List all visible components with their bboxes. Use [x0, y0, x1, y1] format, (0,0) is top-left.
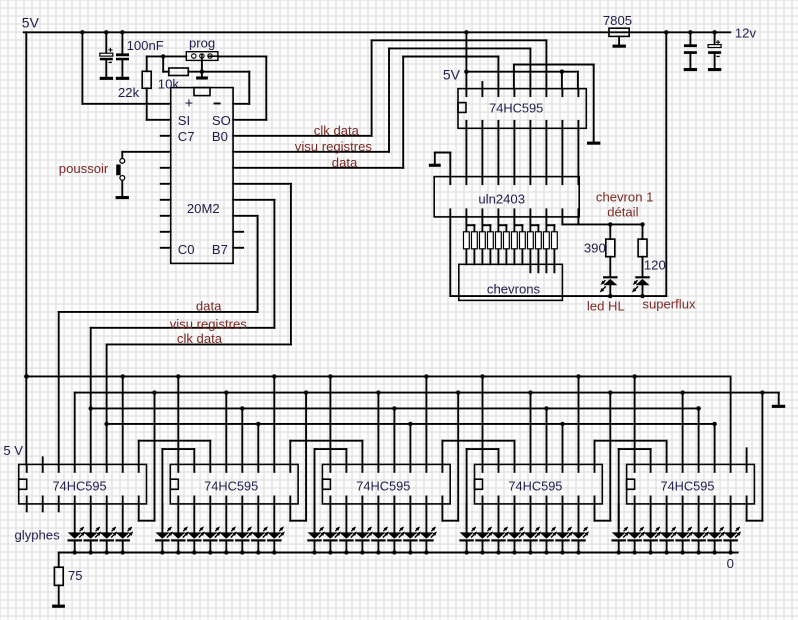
svg-text:superflux: superflux [642, 296, 696, 311]
svg-text:data: data [332, 155, 358, 170]
svg-text:B7: B7 [212, 242, 228, 257]
svg-text:glyphes: glyphes [15, 528, 61, 543]
svg-text:74HC595: 74HC595 [356, 479, 410, 494]
svg-text:clk data: clk data [177, 331, 223, 346]
svg-text:B0: B0 [212, 129, 228, 144]
svg-text:SI: SI [178, 113, 190, 128]
svg-text:390: 390 [584, 240, 606, 255]
svg-text:data: data [196, 299, 222, 314]
svg-text:5V: 5V [22, 15, 40, 31]
svg-text:uln2403: uln2403 [478, 192, 525, 207]
svg-text:chevrons: chevrons [487, 281, 541, 296]
svg-text:74HC595: 74HC595 [508, 479, 562, 494]
svg-text:poussoir: poussoir [59, 161, 109, 176]
svg-text:74HC595: 74HC595 [489, 100, 543, 115]
svg-text:clk data: clk data [314, 123, 360, 138]
svg-text:22k: 22k [118, 85, 140, 100]
svg-text:7805: 7805 [603, 13, 632, 28]
svg-text:5 V: 5 V [3, 443, 23, 458]
svg-text:74HC595: 74HC595 [660, 479, 714, 494]
svg-text:chevron 1: chevron 1 [596, 189, 654, 204]
svg-text:led HL: led HL [587, 299, 625, 314]
svg-text:75: 75 [68, 568, 83, 583]
svg-text:120: 120 [644, 258, 666, 273]
svg-text:visu registres: visu registres [170, 317, 248, 332]
svg-text:C7: C7 [178, 129, 195, 144]
svg-text:+: + [185, 96, 193, 112]
svg-text:prog: prog [189, 35, 215, 50]
svg-text:SO: SO [212, 113, 231, 128]
svg-text:10k: 10k [158, 77, 180, 92]
svg-text:détail: détail [607, 204, 638, 219]
svg-text:C0: C0 [178, 242, 195, 257]
svg-text:74HC595: 74HC595 [53, 479, 107, 494]
svg-text:74HC595: 74HC595 [204, 479, 258, 494]
svg-text:visu registres: visu registres [295, 139, 373, 154]
svg-text:0: 0 [727, 556, 734, 571]
svg-text:12v: 12v [735, 25, 757, 40]
svg-text:5V: 5V [443, 67, 461, 83]
svg-text:20M2: 20M2 [187, 201, 220, 216]
svg-text:100nF: 100nF [127, 38, 164, 53]
